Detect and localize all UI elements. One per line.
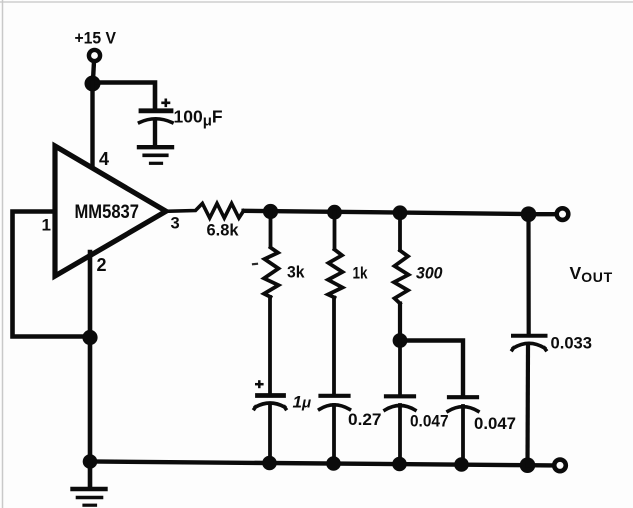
wire from +15V terminal down bbox=[93, 62, 94, 81]
capacitor C2 1u plus sign bbox=[255, 380, 264, 388]
node junction top-left bbox=[85, 76, 101, 92]
svg-text:100μF: 100μF bbox=[174, 107, 223, 130]
wire second 0.047 to bottom rail bbox=[461, 406, 465, 465]
node junction bottom-left bbox=[83, 454, 98, 469]
op-amp U1 MM5837 bbox=[55, 146, 166, 276]
wire to bottom output terminal bbox=[528, 463, 552, 468]
svg-text:3: 3 bbox=[171, 215, 180, 233]
resistor R3 1k bbox=[328, 250, 343, 298]
node junction feedback bbox=[82, 330, 97, 345]
wire rail to 300 bbox=[398, 213, 402, 251]
resistor R1 6.8k bbox=[166, 203, 244, 218]
wire pin 4 bbox=[90, 83, 94, 170]
wire cap bottom to ground bbox=[153, 120, 157, 147]
wire junction to second 0.047 bbox=[400, 341, 463, 396]
wire 0.27 cap to bottom rail bbox=[332, 405, 336, 464]
ground bottom-left bbox=[73, 489, 106, 505]
wire rail to 1k bbox=[333, 212, 337, 249]
node output terminal top bbox=[557, 208, 569, 220]
resistor R4 300 bbox=[394, 251, 409, 304]
wire 1k to 0.27 cap bbox=[332, 298, 336, 395]
capacitor C2 1u bbox=[258, 393, 284, 398]
wire top rail bbox=[244, 211, 529, 214]
wire junction to cap top bbox=[93, 83, 156, 109]
svg-text:0.033: 0.033 bbox=[551, 334, 593, 353]
resistor R2 3k bbox=[264, 248, 279, 298]
wire 3k to 1u cap bbox=[268, 297, 272, 394]
svg-text:1: 1 bbox=[42, 216, 51, 235]
node junction bottom C bbox=[392, 457, 407, 472]
svg-text:0.047: 0.047 bbox=[410, 412, 449, 431]
capacitor C6 0.033 bbox=[513, 334, 546, 338]
capacitor C1 100uF bbox=[141, 108, 171, 113]
svg-text:4: 4 bbox=[99, 149, 109, 169]
svg-text:0.047: 0.047 bbox=[474, 414, 516, 433]
wire pin 1 feedback bbox=[13, 212, 89, 337]
svg-text:0.27: 0.27 bbox=[348, 410, 382, 429]
capacitor C1 100uF plus sign bbox=[161, 99, 170, 108]
node junction rail A bbox=[263, 204, 278, 219]
node junction bottom B bbox=[326, 456, 341, 471]
capacitor C4 0.047 bbox=[386, 394, 414, 398]
wire to top output terminal bbox=[529, 212, 554, 216]
node output terminal bottom bbox=[554, 460, 566, 472]
node junction rail D bbox=[521, 206, 537, 222]
wire junction to first 0.047 bbox=[398, 340, 402, 395]
svg-text:300: 300 bbox=[416, 264, 443, 283]
svg-text:1k: 1k bbox=[353, 264, 368, 283]
capacitor C3 0.27 bbox=[321, 394, 349, 398]
wire 0.047 to bottom rail bbox=[398, 405, 402, 464]
svg-text:6.8k: 6.8k bbox=[207, 221, 240, 240]
svg-text:2: 2 bbox=[97, 255, 107, 275]
svg-text:1μ: 1μ bbox=[293, 393, 312, 412]
wire 300 to junction bbox=[398, 304, 402, 341]
svg-text:3k: 3k bbox=[287, 263, 305, 282]
node junction 300-caps bbox=[393, 333, 408, 348]
capacitor C5 0.047 bbox=[449, 395, 477, 399]
svg-text:MM5837: MM5837 bbox=[75, 201, 140, 223]
wire rail to 3k bbox=[269, 211, 273, 246]
node junction bottom D bbox=[520, 457, 536, 473]
node junction bottom C2 bbox=[454, 457, 469, 472]
noise mark near 3k bbox=[253, 263, 257, 266]
node junction rail B bbox=[327, 205, 342, 220]
node junction bottom A bbox=[262, 456, 277, 471]
ground under 100uF bbox=[139, 147, 172, 163]
svg-text:+15 V: +15 V bbox=[75, 29, 117, 48]
wire 0.033 cap to bottom rail bbox=[525, 345, 530, 465]
wire bottom rail bbox=[90, 462, 528, 466]
wire bottom-left junction to ground bbox=[88, 462, 93, 488]
wire 1u cap to bottom rail bbox=[268, 405, 272, 463]
node junction rail C bbox=[393, 205, 408, 220]
wire rail D to 0.033 cap bbox=[526, 214, 530, 334]
wire pin 2 down bbox=[88, 252, 93, 462]
node +15V terminal bbox=[89, 50, 100, 61]
